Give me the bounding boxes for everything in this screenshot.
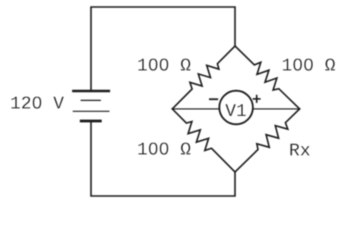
wire meter right: [253, 108, 300, 110]
resistor Rx bottom-right: [235, 109, 300, 172]
plus sign: [254, 98, 260, 100]
wire top loop: [91, 7, 235, 90]
minus sign: [210, 98, 217, 100]
label 120 V: [11, 97, 64, 109]
wire meter left: [172, 108, 219, 110]
battery B1 plate 2 short thin: [81, 99, 100, 101]
label V1 meter: [225, 104, 246, 116]
voltmeter V1 circle: [219, 91, 253, 125]
label Rx: [290, 144, 309, 156]
resistor 100ohm top-right: [235, 46, 300, 109]
battery B1 plate 3 long thin: [73, 110, 109, 112]
wire bottom loop: [91, 122, 235, 196]
resistor 100ohm top-left: [172, 46, 235, 109]
label 100ohm top-right: [283, 59, 335, 71]
battery B1 plate 1 long thick: [73, 90, 109, 92]
resistor 100ohm bottom-left: [172, 109, 235, 172]
battery B1 plate 4 short thick: [81, 120, 100, 123]
label 100ohm top-left: [138, 59, 190, 71]
label 100ohm bottom-left: [138, 143, 190, 155]
